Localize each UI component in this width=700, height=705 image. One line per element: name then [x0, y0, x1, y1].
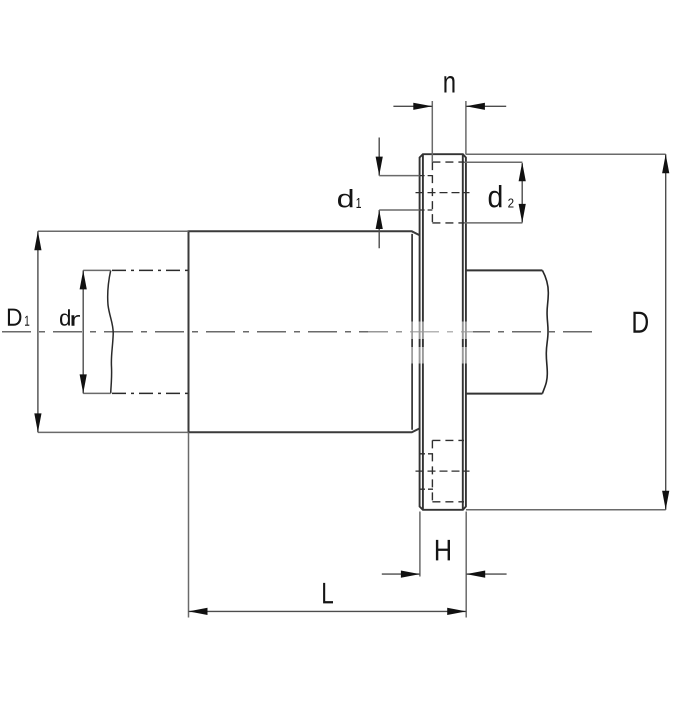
dimension D1: dimension line with inside arrows: [37, 231, 39, 432]
dimension dr: leader stubs: [83, 270, 111, 393]
dimension H: label: [436, 540, 450, 561]
flange outline: [420, 154, 466, 510]
dimension D: dimension line with inside arrows: [665, 154, 667, 510]
right shaft outline: [466, 270, 542, 393]
left shaft break (wavy line): [108, 270, 114, 393]
bottom bolt hole d1 hidden lines: [420, 454, 433, 489]
dimension d2: label: [489, 185, 502, 208]
dimension L: dimension line with inside arrows: [189, 610, 467, 612]
watermark lightening bands: [403, 322, 473, 340]
dimension n: dimension line: [393, 105, 506, 107]
dimension H: extension lines: [420, 512, 466, 618]
dimension n: arrows: [413, 103, 485, 110]
dimension n: label: [444, 76, 454, 93]
dimension d1: leader lines: [379, 176, 419, 210]
dimension L: label: [323, 583, 333, 604]
bottom bolt hole counterbore (hidden dashed box): [432, 440, 464, 501]
dimension n: extension lines: [432, 101, 466, 162]
body outline: [189, 231, 420, 432]
top bolt hole counterbore (hidden dashed box): [432, 162, 464, 223]
dimension L: extension line (left): [188, 432, 190, 617]
flange inner edge lines: [423, 154, 463, 510]
left shaft bottom edge (phantom dash-dot): [112, 392, 189, 394]
dimension dr: label: [60, 309, 70, 325]
bottom bolt hole centerline: [416, 470, 470, 472]
right shaft break (wavy line): [542, 270, 548, 393]
top bolt hole d1 hidden lines: [420, 176, 433, 210]
dimension d1: dimension line with outside arrows: [378, 138, 380, 249]
dimension d1: label: [338, 189, 353, 208]
dimension D1: leader lines: [38, 231, 189, 432]
body right end chamfer line: [411, 234, 413, 430]
left shaft top edge (phantom dash-dot): [112, 269, 189, 271]
dimension d2: dimension line with inside arrows: [521, 163, 523, 222]
dimension H: dimension line with outside arrows: [382, 573, 507, 575]
dimension D1: label: [8, 309, 22, 326]
dimension dr: dimension line with inside arrows: [82, 270, 84, 393]
dimension D: label: [633, 312, 648, 333]
dimension d2: leader lines: [464, 162, 522, 223]
main horizontal centerline: [2, 331, 594, 333]
dimension D: leader lines: [466, 154, 666, 510]
top bolt hole centerline: [416, 192, 470, 194]
